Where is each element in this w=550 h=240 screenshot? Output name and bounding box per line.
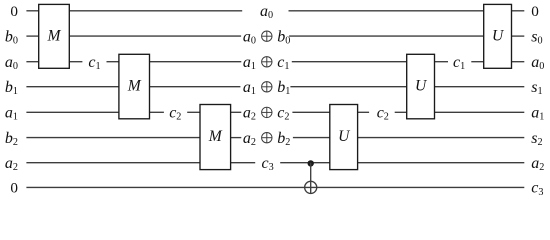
gate U2 (U) bbox=[407, 54, 435, 119]
CNOT control dot on wire 7 bbox=[308, 160, 314, 166]
wire w6a bbox=[26, 137, 200, 139]
wire w5a bbox=[26, 111, 119, 113]
gate U3 (U) bbox=[330, 105, 358, 170]
wire w7c bbox=[280, 162, 330, 164]
gate M1 (M) bbox=[39, 4, 70, 68]
wire w5h bbox=[435, 111, 525, 113]
wire w7b bbox=[231, 162, 256, 164]
wire w2c bbox=[289, 35, 484, 37]
wire w3d bbox=[150, 61, 242, 63]
wire w4a bbox=[26, 86, 119, 88]
svg-text:U: U bbox=[415, 78, 428, 95]
wire w3b bbox=[69, 61, 82, 63]
wire w5c bbox=[187, 111, 200, 113]
svg-text:M: M bbox=[47, 28, 62, 45]
wire w5d bbox=[231, 111, 242, 113]
wire w2b bbox=[69, 35, 241, 37]
wire w2a bbox=[26, 35, 38, 37]
svg-text:M: M bbox=[208, 128, 223, 145]
wire w1a bbox=[26, 10, 38, 12]
wire w3h bbox=[512, 61, 525, 63]
wire w4d bbox=[435, 86, 525, 88]
wire w2d bbox=[512, 35, 525, 37]
wire w5g bbox=[395, 111, 407, 113]
gate M2 (M) bbox=[119, 54, 150, 119]
wire w1b bbox=[69, 10, 242, 12]
wire w5b bbox=[150, 111, 164, 113]
svg-text:0: 0 bbox=[10, 180, 18, 197]
wire w7d bbox=[358, 162, 525, 164]
wire w6c bbox=[293, 137, 330, 139]
wire w3e bbox=[292, 61, 407, 63]
wire w5e bbox=[292, 111, 329, 113]
svg-text:U: U bbox=[492, 28, 505, 45]
wire w6b bbox=[231, 137, 242, 139]
svg-text:M: M bbox=[127, 78, 142, 95]
wire w4c bbox=[290, 86, 406, 88]
CNOT target oplus on wire 8 bbox=[305, 181, 317, 193]
wire w3c bbox=[107, 61, 119, 63]
CNOT vertical line bbox=[310, 163, 312, 194]
wire w3f bbox=[435, 61, 449, 63]
wire w3a bbox=[26, 61, 38, 63]
wire w1c bbox=[289, 10, 484, 12]
svg-text:0: 0 bbox=[531, 3, 539, 20]
wire w7a bbox=[26, 162, 200, 164]
wire w1d bbox=[512, 10, 525, 12]
gate M3 (M) bbox=[200, 105, 231, 170]
gate U1 (U) bbox=[484, 4, 512, 68]
wire w6d bbox=[358, 137, 525, 139]
svg-text:0: 0 bbox=[10, 3, 18, 20]
wire w5f bbox=[358, 111, 370, 113]
wire w3g bbox=[471, 61, 483, 63]
wire w4b bbox=[150, 86, 241, 88]
svg-text:U: U bbox=[338, 128, 351, 145]
wire w8 bbox=[26, 186, 524, 188]
